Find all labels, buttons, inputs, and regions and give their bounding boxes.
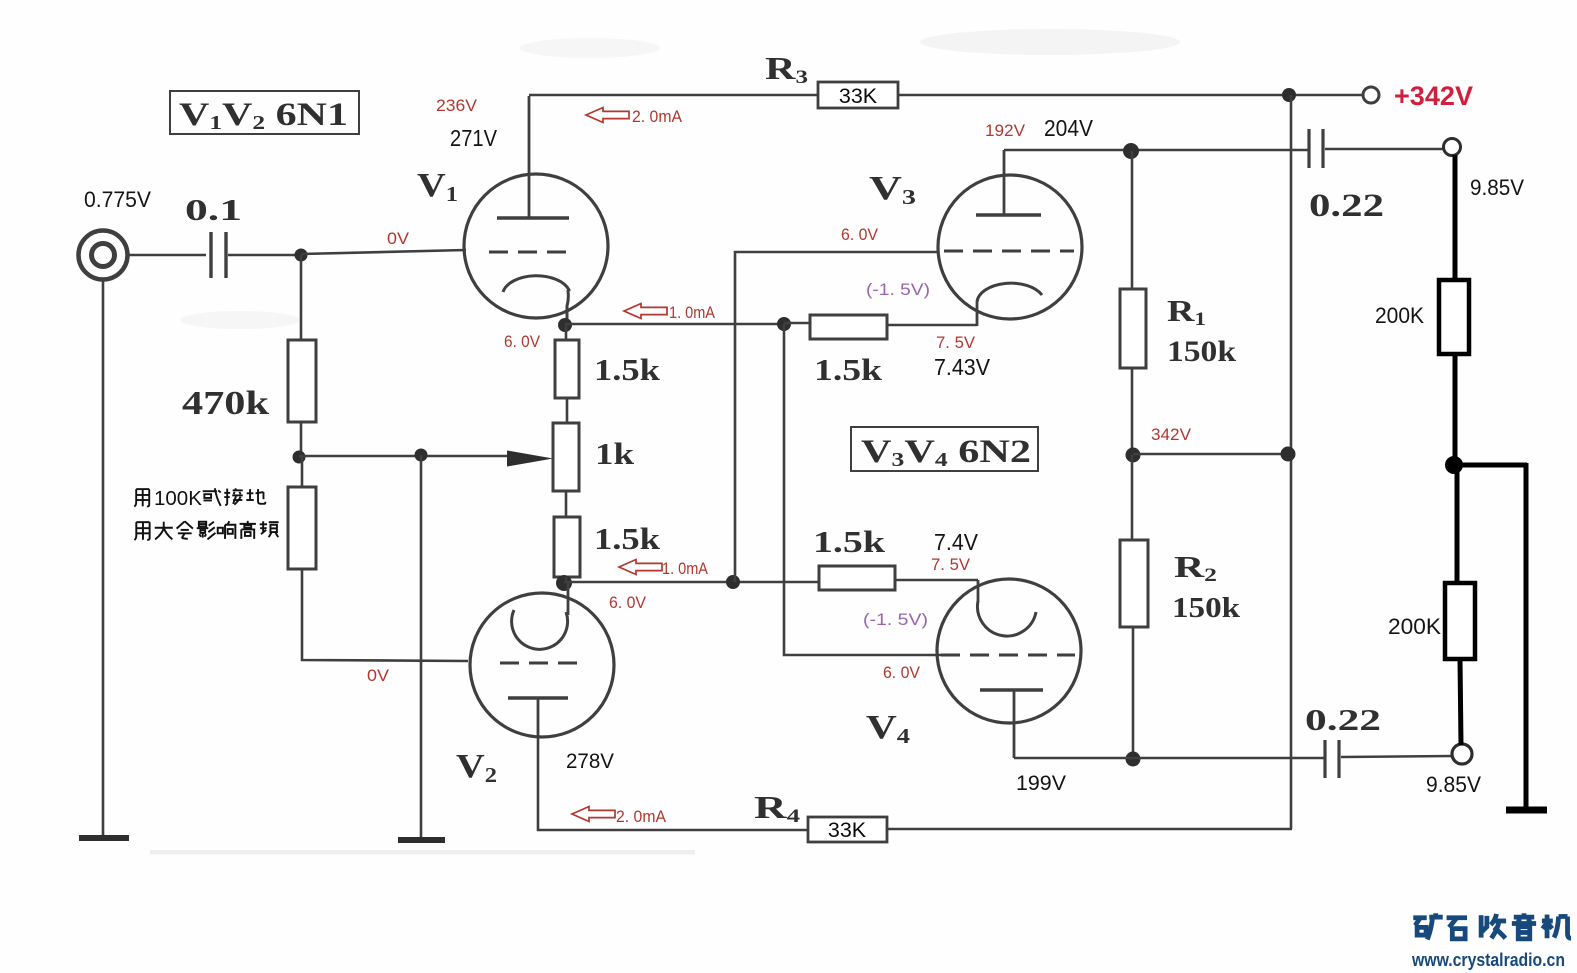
wire node E down to V4 grid [784, 324, 944, 655]
svg-text:+342V: +342V [1394, 81, 1473, 111]
svg-text:200K: 200K [1388, 614, 1441, 639]
svg-text:6. 0V: 6. 0V [883, 663, 921, 682]
svg-text:R1: R1 [1167, 293, 1206, 330]
svg-text:1.5k: 1.5k [594, 521, 661, 556]
svg-text:V1V2 6N1: V1V2 6N1 [179, 97, 348, 134]
wire 342V to B+ riser [1133, 453, 1288, 456]
terminal +342V [1363, 87, 1379, 103]
wire R2 to node J [1132, 627, 1135, 759]
tube V2 envelope [470, 593, 614, 737]
svg-text:1k: 1k [595, 436, 635, 471]
svg-text:V1: V1 [417, 167, 458, 206]
output terminal (bottom) 9.85V [1452, 744, 1472, 764]
tube V4 grid (dashed) [941, 654, 1075, 657]
wire V2 cathode to node F [564, 581, 819, 584]
wire J1 to C1 [128, 254, 206, 257]
wire 1k to 1.5k [565, 491, 568, 517]
svg-text:0V: 0V [367, 666, 390, 685]
potentiometer wiper arrow into 1k [507, 451, 553, 467]
resistor 1.5k (V4 cathode, horizontal) [819, 566, 895, 590]
svg-text:V4: V4 [866, 709, 911, 748]
wire C2 to output terminal (top) [1325, 148, 1444, 151]
resistor R2 150k [1120, 540, 1148, 627]
resistor 1.5k (V1 cathode) [555, 340, 579, 398]
label box V3 V4 6N2 [851, 427, 1038, 471]
tube V4 cathode [977, 601, 1036, 636]
node I junction on riser [1281, 447, 1296, 462]
svg-text:R4: R4 [754, 789, 801, 827]
resistor R1 150k [1120, 289, 1146, 368]
node G junction (204V / R1) [1123, 143, 1139, 159]
output terminal (top) 9.85V [1444, 139, 1461, 156]
wire node G to R1 [1131, 151, 1134, 289]
svg-text:342V: 342V [1151, 425, 1192, 444]
ground GND1 (input) [79, 835, 129, 841]
node B junction [293, 451, 306, 464]
svg-text:470k: 470k [182, 385, 269, 422]
tube V1 cathode [503, 276, 569, 325]
svg-text:0.22: 0.22 [1309, 188, 1384, 224]
wire 200K lower to output terminal [1460, 659, 1461, 745]
wire 1.5k to 1k [566, 398, 569, 423]
current arrow 1.0mA (red, lower) [619, 560, 662, 575]
svg-text:33K: 33K [839, 84, 878, 108]
current arrow 2.0mA (red, bottom) [572, 807, 615, 822]
wire C3 to output terminal (bottom) [1341, 756, 1453, 757]
resistor 470k [288, 340, 316, 422]
resistor 1.5k (V2 cathode) [554, 517, 580, 577]
svg-text:271V: 271V [450, 125, 498, 151]
svg-text:1.5k: 1.5k [813, 524, 886, 559]
node J junction (199V line) [1126, 752, 1141, 767]
tube V1 plate [497, 216, 569, 219]
node K junction (divider midpoint) [1445, 456, 1463, 474]
wire R4 to B+ rail riser [887, 828, 1292, 831]
tube V1 envelope [464, 174, 608, 318]
resistor 1.5k (V3 cathode, horizontal) [784, 322, 810, 325]
svg-text:0.22: 0.22 [1305, 702, 1381, 737]
node D junction on B+ rail [1282, 88, 1296, 102]
svg-text:V2: V2 [456, 748, 497, 787]
svg-text:192V: 192V [985, 121, 1026, 140]
svg-text:0.775V: 0.775V [84, 187, 151, 212]
wire terminal to 200K (top, black) [1453, 155, 1458, 280]
wire V1 plate to R3 [529, 94, 818, 97]
wire V1 cathode to node E [565, 323, 784, 326]
wire node A to V1 grid [301, 250, 466, 254]
tube V3 envelope [938, 175, 1082, 319]
wire V3 plate line 204V [1004, 149, 1309, 152]
wire 470k to node B [300, 422, 303, 457]
capacitor C1 0.1 [209, 232, 212, 278]
svg-text:6. 0V: 6. 0V [504, 332, 541, 351]
wire 100K to V2 grid [302, 569, 468, 661]
svg-text:7. 5V: 7. 5V [931, 555, 971, 574]
tube V2 cathode [512, 610, 568, 649]
svg-text:www.crystalradio.cn: www.crystalradio.cn [1411, 950, 1565, 970]
resistor 100K (grid leak, see note) [288, 487, 316, 569]
tube V1 grid (dashed) [489, 251, 576, 254]
svg-text:1. 0mA: 1. 0mA [669, 303, 716, 322]
node E junction (V1 cathode to V3 side) [777, 317, 791, 331]
svg-text:0.1: 0.1 [185, 192, 242, 227]
note text: too large affects high freq [134, 522, 149, 540]
svg-text:200K: 200K [1375, 303, 1424, 328]
svg-text:9.85V: 9.85V [1470, 175, 1524, 200]
wire V2 plate to R4 [538, 737, 808, 830]
tube V3 cathode [977, 283, 1042, 302]
svg-text:7.43V: 7.43V [934, 354, 991, 380]
capacitor C2 0.22 (top) [1307, 129, 1310, 168]
current arrow 1.0mA (red, upper) [624, 304, 667, 319]
node V1 cathode junction [558, 318, 572, 332]
svg-text:0V: 0V [387, 229, 410, 248]
svg-text:278V: 278V [566, 749, 615, 773]
input terminal J1 (0.775V source) [79, 231, 128, 280]
capacitor C3 0.22 (bottom) [1323, 740, 1326, 778]
note text: use 100K or ground [134, 489, 149, 506]
node F junction (V2 cathode to V3 grid) [726, 575, 740, 589]
wire node A down to 470k [300, 255, 303, 340]
svg-text:199V: 199V [1016, 771, 1067, 795]
node A junction (input/grid/470k) [295, 249, 308, 262]
svg-text:150k: 150k [1167, 335, 1236, 368]
wire 200K to node K [1453, 354, 1458, 466]
resistor R4 33K [808, 817, 887, 842]
svg-text:R3: R3 [765, 50, 808, 88]
svg-text:1.5k: 1.5k [594, 352, 661, 387]
svg-text:100K: 100K [154, 487, 202, 510]
svg-text:1. 0mA: 1. 0mA [662, 559, 709, 578]
ground GND2 (middle) [398, 837, 445, 843]
svg-text:6. 0V: 6. 0V [841, 225, 879, 244]
resistor R3 33K [818, 82, 898, 108]
current arrow 2.0mA (red, top) [586, 108, 629, 123]
wire J1 ground drop [102, 279, 105, 838]
tube V2 plate [508, 696, 568, 699]
node V2 cathode junction [556, 575, 572, 591]
label box V1 V2 6N1 [170, 91, 359, 134]
wire C1 to node A [228, 254, 301, 257]
svg-text:V3V4 6N2: V3V4 6N2 [861, 434, 1031, 471]
svg-text:R2: R2 [1174, 549, 1217, 586]
svg-text:V3: V3 [869, 170, 916, 209]
wire V4 plate line 199V [1014, 757, 1324, 760]
svg-text:6. 0V: 6. 0V [609, 593, 647, 612]
ground GND3 (right, black) [1506, 807, 1547, 814]
svg-text:7. 5V: 7. 5V [936, 333, 976, 352]
wire R1 to node H [1131, 368, 1134, 455]
tube V4 plate [980, 688, 1043, 691]
potentiometer 1k [553, 423, 579, 491]
svg-text:1.5k: 1.5k [814, 352, 883, 387]
node C junction [415, 449, 428, 462]
tube V3 grid (dashed) [944, 250, 1074, 253]
svg-text:204V: 204V [1044, 115, 1094, 141]
wire node K to 200K lower [1455, 465, 1460, 583]
tube V3 plate [976, 213, 1041, 216]
svg-text:33K: 33K [828, 818, 867, 842]
svg-text:150k: 150k [1172, 593, 1240, 624]
resistor 200K (upper) [1439, 280, 1469, 354]
node H junction (342V) [1126, 448, 1141, 463]
svg-text:9.85V: 9.85V [1426, 772, 1481, 797]
svg-text:7.4V: 7.4V [934, 529, 979, 555]
wire node C to ground [420, 455, 423, 840]
resistor 200K (lower) [1445, 583, 1475, 659]
wire B+ rail riser (right vertical) [1290, 95, 1293, 829]
svg-text:2. 0mA: 2. 0mA [632, 107, 683, 126]
svg-text:2. 0mA: 2. 0mA [616, 807, 667, 826]
svg-text:236V: 236V [436, 96, 478, 115]
wire node H to R2 [1131, 455, 1134, 540]
watermark site logo [1413, 913, 1442, 939]
wire node K to ground riser [1452, 463, 1527, 468]
svg-text:(-1. 5V): (-1. 5V) [866, 280, 930, 299]
wire node F up to V3 grid [735, 252, 938, 582]
svg-text:(-1. 5V): (-1. 5V) [863, 610, 928, 629]
tube V2 grid (dashed) [500, 662, 578, 665]
wire node B to node C and 1k wiper [299, 455, 516, 458]
tube V4 envelope [937, 579, 1081, 723]
wire R3 to +342V terminal [898, 94, 1363, 97]
